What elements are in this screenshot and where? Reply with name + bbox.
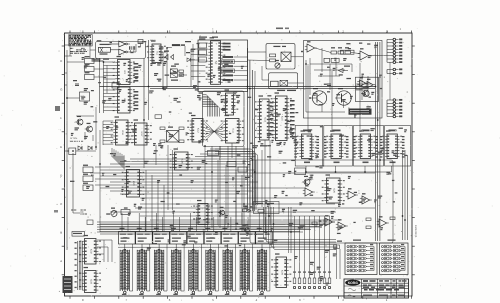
wire crossing fan (205, 122, 223, 141)
inverter gate IC14b (119, 49, 128, 55)
wire (205, 146, 244, 228)
wire (90, 149, 375, 212)
label block title (199, 37, 218, 40)
svg-text:IC16: IC16 (121, 130, 124, 136)
capacitor C2a (133, 46, 135, 50)
border zone tick marks top (70, 29, 412, 33)
resistor R51 (208, 151, 219, 156)
data latch block boundary (203, 91, 245, 147)
wire (100, 48, 376, 211)
transistor Q10 (243, 224, 250, 232)
keyboard octave cell 4 driver (170, 228, 187, 244)
IC13 decoder (255, 95, 274, 140)
wire (103, 121, 113, 145)
keyboard octave cell 6 switch ladder (206, 244, 219, 295)
resistor R63 (390, 217, 395, 220)
keyboard octave cell 7 driver (221, 228, 238, 244)
op-amp IC8 (305, 41, 317, 52)
resistor chain R35 R36 (324, 58, 339, 62)
transistor Q8 (302, 176, 310, 185)
connector CN2 (387, 68, 402, 75)
wire (65, 45, 73, 85)
keyboard octave cell 4 switch ladder (172, 244, 185, 295)
wire (96, 62, 390, 232)
wire (122, 213, 265, 232)
IC33 key switch buffer (80, 267, 102, 293)
resistor R66 (87, 220, 93, 225)
op-amp IC9 (358, 48, 371, 60)
resistor R31 (331, 51, 337, 54)
wire test point drops (293, 216, 331, 289)
keyboard octave cell 1 switch ladder (120, 244, 133, 295)
resistor R64 (312, 222, 317, 225)
svg-text:KORG: KORG (348, 281, 359, 285)
master VCO block boundary (266, 44, 295, 69)
label OSC (172, 44, 185, 46)
keyboard octave cell 8 driver (239, 228, 256, 244)
svg-text:IC15: IC15 (280, 116, 283, 122)
sub oscillator block boundary (269, 73, 298, 89)
wire (76, 116, 94, 141)
wire (90, 40, 149, 120)
transistor Q5 (large) (310, 88, 327, 105)
drawing number sideways right margin (414, 225, 417, 238)
svg-text:F: F (60, 116, 62, 120)
keyboard octave cell 6 driver (204, 228, 221, 244)
wire (306, 166, 392, 172)
IC34 key scan mux (271, 253, 291, 287)
op-amp IC29 (323, 215, 335, 226)
keyboard octave cell 3 switch ladder (154, 244, 167, 295)
resistor R62 (366, 226, 371, 229)
wire (110, 44, 148, 53)
diode D3 (187, 58, 195, 62)
border zone tick marks bottom (70, 296, 412, 302)
switch S1 (69, 148, 76, 155)
title block grid (344, 279, 409, 298)
buffer stage block boundary (355, 77, 378, 101)
resistor pack left of CPU (185, 41, 206, 62)
wire (104, 62, 116, 113)
transistor pair phase splitter (162, 51, 174, 60)
resistor-diode array box 1 (345, 240, 377, 275)
IC32 key switch buffer (80, 235, 102, 264)
wire (118, 246, 275, 248)
IC21 gate array (355, 130, 375, 158)
trimmer VR1 (275, 60, 280, 68)
diode D2 (88, 146, 92, 150)
resistor R44 (179, 140, 184, 143)
wire (191, 44, 205, 86)
keyboard octave cell 9 switch ladder (257, 244, 270, 295)
resistor R70 (258, 210, 264, 213)
label R31 R32 R33 values (331, 47, 349, 48)
op-amp IC30 (336, 219, 348, 230)
transistor Q2 (85, 123, 93, 132)
svg-text:IC24: IC24 (180, 159, 183, 165)
trigger block boundary (254, 202, 280, 214)
wire (376, 42, 380, 241)
connector CN4 block (63, 276, 73, 293)
transistor Q1 (75, 116, 83, 125)
resistor R3 (138, 40, 143, 44)
svg-text:G: G (60, 88, 62, 92)
IC24 buffer (170, 148, 193, 170)
wire (248, 52, 304, 86)
wire (337, 244, 341, 279)
label IC15 pin signal names (270, 100, 295, 138)
op-amp IC9c (365, 79, 376, 88)
svg-text:IC26: IC26 (332, 188, 335, 194)
resistor R42 (160, 140, 165, 143)
IC23 comparator (122, 166, 145, 197)
balanced modulator IC18 (167, 127, 179, 143)
keyboard octave cell 5 driver (187, 228, 204, 244)
diode D1 (78, 146, 82, 150)
ring modulator cluster (170, 66, 183, 81)
sample hold block boundary (250, 160, 393, 243)
IC1 oscillator divider (147, 40, 166, 62)
label CPU signal names (222, 43, 248, 81)
IC3 counter 4520 (113, 56, 135, 85)
svg-text:C: C (60, 202, 62, 206)
IC11 latch (221, 115, 244, 143)
sheet revision note block (dense text) (69, 35, 92, 47)
stray mark left margin (54, 106, 60, 213)
wire (403, 150, 408, 240)
capacitor C4 (73, 80, 79, 86)
IC5 key assigner CPU (206, 37, 226, 84)
label CR box (155, 115, 162, 119)
output amplifier section boundary (304, 41, 383, 119)
pin labels beside gate arrays (294, 136, 404, 158)
KORG logo (345, 280, 360, 286)
svg-text:B: B (60, 231, 62, 235)
resistor R21 (270, 54, 276, 57)
IC19 gate array (297, 130, 317, 158)
connector CN3 (387, 99, 402, 118)
resistor array RA2 (83, 165, 93, 191)
wire (161, 46, 187, 88)
wire junction dots (66, 47, 406, 233)
wire (100, 58, 104, 113)
svg-text:IC11: IC11 (231, 128, 234, 133)
key assigner logic block boundary (198, 40, 248, 92)
wire (264, 207, 337, 253)
diode D5 with arrow (339, 66, 351, 73)
label ATTENUATOR (70, 137, 83, 141)
label bus names (252, 145, 267, 148)
wire (112, 148, 125, 169)
op-amp IC31 (377, 216, 389, 227)
gate between counters (112, 83, 119, 88)
resistor R32 (338, 51, 344, 54)
wire (65, 150, 97, 152)
keyboard octave cell 5 switch ladder (189, 244, 202, 295)
mixer X symbol sub (280, 80, 288, 86)
svg-text:E: E (60, 145, 62, 149)
resistor R41 (160, 127, 165, 130)
svg-text:IC33: IC33 (89, 279, 92, 285)
resistor R54 (295, 168, 306, 175)
resistor R61 (366, 218, 371, 221)
transistor Q6 (large) (335, 88, 351, 105)
svg-text:IC32: IC32 (89, 249, 92, 255)
resistor R71 (334, 245, 340, 249)
svg-text:D: D (60, 173, 62, 177)
border zone tick marks right (412, 46, 415, 275)
wire (100, 216, 340, 234)
svg-text:KLM-157A: KLM-157A (414, 225, 417, 238)
keyboard octave cell 1 driver (119, 228, 136, 244)
IC22 gate array (382, 130, 402, 158)
keyboard octave cell 9 driver (256, 228, 273, 244)
wire key lines bundle (75, 241, 83, 290)
channel cell boundaries (295, 126, 410, 167)
label KEY SW (72, 232, 85, 237)
title block text (347, 280, 407, 297)
label VCO (273, 46, 286, 47)
IC7 divider (271, 81, 279, 87)
transistor Q7 (361, 87, 369, 97)
wire (73, 153, 80, 213)
resistor R22 (270, 59, 276, 62)
capacitor C1 (130, 46, 132, 50)
resistor R37 (356, 86, 362, 89)
crystal X1 (98, 44, 110, 55)
transistor Q9 (218, 207, 225, 215)
svg-text:H: H (60, 59, 62, 63)
op-amp IC27 (346, 188, 358, 199)
svg-text:A: A (60, 259, 62, 263)
border zone tick marks left (60, 46, 64, 275)
op-amp IC9b (357, 77, 368, 86)
IC20 gate array (326, 130, 346, 158)
mixer X symbol IC6 (281, 52, 295, 61)
svg-text:IC34: IC34 (280, 270, 283, 276)
wire (94, 61, 104, 77)
svg-text:ATTEN.: ATTEN. (70, 137, 78, 140)
note above frame (276, 28, 289, 30)
IC4 counter 4520 (113, 83, 135, 113)
wire (67, 50, 85, 250)
wire (306, 58, 372, 112)
IC15 decoder (271, 92, 292, 140)
resistor R10 (80, 92, 90, 101)
op-amp IC25 (303, 185, 315, 196)
resistor-diode array box 2 (380, 240, 409, 275)
note text under revision block (70, 48, 87, 53)
connector CN1 (387, 38, 402, 63)
resistor R34 feedback (341, 50, 355, 54)
resistor R33 (345, 51, 351, 54)
trimmer VR5 (111, 208, 117, 217)
inverter gate IC14a (119, 41, 128, 47)
label IC3 IC4 output signal names (134, 63, 139, 110)
keyboard octave cell 8 switch ladder (240, 244, 253, 295)
svg-text:IC17: IC17 (140, 132, 143, 138)
keyboard octave cell 7 switch ladder (223, 244, 236, 295)
IC35 envelope generator (193, 200, 213, 225)
keyboard octave cell 3 driver (153, 228, 170, 244)
keyboard octave cell 2 switch ladder (137, 244, 150, 295)
resistor array RA1 (85, 56, 95, 79)
IC16 counter (111, 116, 133, 145)
resistor R52 (227, 162, 236, 167)
IC12 latch (187, 115, 208, 142)
wire (97, 240, 112, 262)
IC17 counter (130, 119, 152, 145)
schematic sheet border frame (65, 33, 413, 296)
op-amp IC28 (360, 193, 372, 204)
component value labels (illegible in scan) (70, 40, 407, 285)
label 500kHz (92, 59, 110, 62)
inverse label plate (349, 109, 372, 115)
IC10 shift register (221, 89, 239, 115)
keyboard octave cell 2 driver (136, 228, 153, 244)
IC26 switch (322, 174, 345, 203)
label near R71 (337, 241, 342, 242)
resistor R53 (238, 167, 247, 172)
svg-text:IC12: IC12 (197, 128, 200, 134)
svg-text:IC23: IC23 (132, 181, 135, 187)
wire (203, 95, 220, 117)
wire keyboard bus (97, 222, 335, 232)
title block frame (344, 279, 409, 298)
label above gate arrays (303, 130, 397, 164)
label sub block (277, 90, 296, 91)
clock oscillator block boundary (96, 42, 146, 59)
diode D6 chain (243, 206, 251, 213)
resistor R43 (179, 127, 184, 130)
capacitor C12 (327, 84, 331, 86)
resistor R65 (121, 210, 130, 215)
wire (310, 48, 387, 95)
note text lower left (71, 210, 87, 214)
